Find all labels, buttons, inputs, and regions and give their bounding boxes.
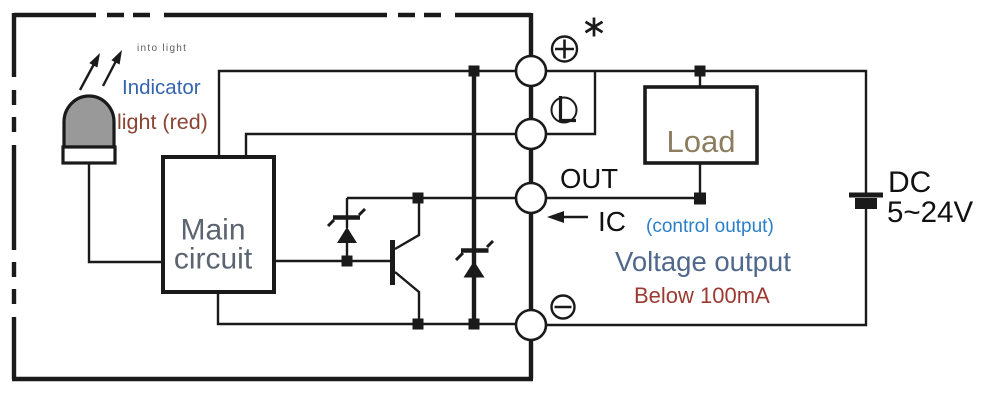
svg-text:OUT: OUT <box>560 163 618 194</box>
junction at minus line and zener branch <box>469 319 480 330</box>
junction at minus line and emitter <box>413 319 424 330</box>
junction at base wire and zener D1 <box>342 256 353 267</box>
wire: L line from main circuit top to terminal 2 <box>246 134 516 157</box>
svg-text:5~24V: 5~24V <box>887 196 973 229</box>
zener diode D1 <box>328 198 365 261</box>
wire: thick vertical zener branch <box>472 71 476 324</box>
wire: external plus rail to DC source <box>546 71 866 194</box>
minus symbol <box>552 296 575 319</box>
svg-text:Voltage output: Voltage output <box>615 246 791 277</box>
enclosure dashed border top <box>14 13 531 17</box>
enclosure border bottom <box>12 377 533 381</box>
DC battery BT1 <box>849 195 883 209</box>
terminal 1 (+) <box>516 56 546 86</box>
svg-text:circuit: circuit <box>174 243 253 276</box>
svg-text:Indicator: Indicator <box>122 76 201 99</box>
enclosure border right / terminal strip <box>529 13 533 379</box>
main circuit box U1 <box>163 157 274 292</box>
asterisk note mark <box>586 18 603 37</box>
wire: LED cathode to main circuit <box>89 162 161 262</box>
svg-text:Load: Load <box>667 124 736 159</box>
junction at plus rail and load <box>695 66 706 77</box>
terminal 2 (L) <box>516 119 546 149</box>
IC pointer arrow <box>547 211 588 223</box>
terminal 3 (OUT) <box>516 183 546 213</box>
svg-text:light (red): light (red) <box>117 110 208 134</box>
svg-text:IC: IC <box>598 206 626 237</box>
svg-text:Below 100mA: Below 100mA <box>634 283 770 308</box>
wire: minus line from main circuit bottom to terminal 4 <box>218 292 516 324</box>
junction at OUT wire and load <box>694 193 706 205</box>
wire: load top lead <box>699 71 701 87</box>
L (lamp) symbol <box>552 96 577 123</box>
zener diode D2 <box>456 241 493 278</box>
transistor Q1 <box>393 198 420 324</box>
light emission arrow 1 <box>80 53 100 90</box>
wire: plus line from main circuit top to terminal 1 <box>219 71 516 157</box>
wire: external minus rail to DC source <box>546 208 866 325</box>
wire: load bottom lead <box>699 163 701 198</box>
plus symbol <box>552 37 577 62</box>
wire: base wire from main circuit to transistor <box>275 260 392 262</box>
svg-text:(control output): (control output) <box>646 216 774 237</box>
svg-text:into light: into light <box>137 43 187 54</box>
load box <box>645 87 757 163</box>
enclosure dashed border left <box>12 13 16 379</box>
wire: external L terminal jog to plus rail <box>546 72 595 134</box>
svg-text:DC: DC <box>888 166 931 199</box>
LED indicator lamp <box>63 96 115 163</box>
junction at plus rail and zener branch <box>469 66 480 77</box>
wire: external OUT wire to load <box>546 197 700 199</box>
junction at OUT line and collector <box>413 193 424 204</box>
terminal 4 (-) <box>516 310 546 340</box>
light emission arrow 2 <box>103 50 122 86</box>
wire: OUT node line zener top to terminal 3 <box>347 197 516 199</box>
